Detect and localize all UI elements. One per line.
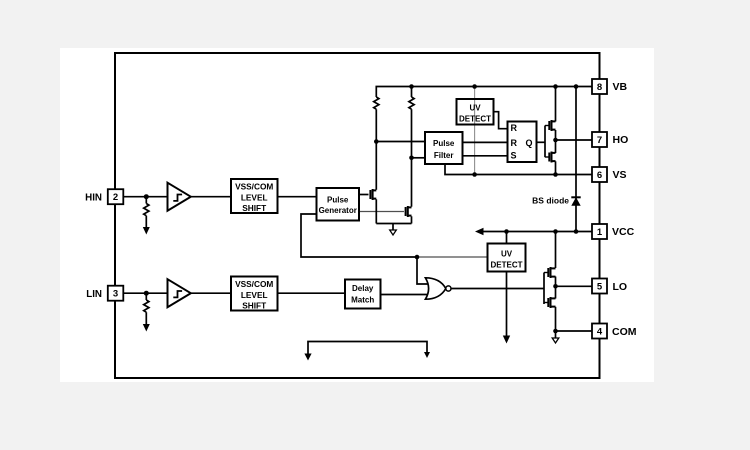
svg-text:8: 8 (597, 82, 602, 93)
svg-text:7: 7 (597, 135, 602, 146)
svg-text:BS diode: BS diode (532, 196, 569, 206)
svg-text:LEVEL: LEVEL (241, 290, 268, 300)
svg-text:UV: UV (501, 250, 513, 259)
svg-text:VSS/COM: VSS/COM (235, 182, 273, 192)
svg-text:Pulse: Pulse (327, 196, 349, 205)
svg-text:LEVEL: LEVEL (241, 193, 268, 203)
svg-text:R: R (511, 123, 518, 133)
svg-text:Delay: Delay (352, 284, 374, 293)
svg-text:VB: VB (613, 81, 628, 93)
svg-text:UV: UV (469, 104, 481, 113)
svg-text:1: 1 (597, 227, 603, 238)
svg-text:HIN: HIN (85, 192, 102, 203)
svg-text:Generator: Generator (319, 206, 357, 215)
svg-text:LO: LO (613, 281, 628, 293)
svg-text:Pulse: Pulse (433, 139, 455, 148)
svg-text:Filter: Filter (434, 151, 454, 160)
svg-text:COM: COM (612, 326, 637, 338)
svg-text:R: R (511, 138, 518, 148)
svg-text:6: 6 (597, 170, 602, 181)
svg-text:VSS/COM: VSS/COM (235, 279, 273, 289)
svg-text:SHIFT: SHIFT (242, 203, 266, 213)
svg-text:2: 2 (113, 192, 118, 203)
svg-text:VS: VS (613, 169, 627, 181)
svg-text:5: 5 (597, 282, 603, 293)
svg-text:SHIFT: SHIFT (242, 301, 266, 311)
svg-text:DETECT: DETECT (491, 260, 523, 269)
svg-text:DETECT: DETECT (459, 114, 491, 123)
svg-text:4: 4 (597, 327, 603, 338)
svg-text:Q: Q (526, 138, 533, 148)
svg-text:Match: Match (351, 296, 374, 305)
svg-text:LIN: LIN (86, 289, 102, 300)
svg-text:S: S (511, 151, 517, 161)
svg-text:VCC: VCC (612, 226, 635, 238)
svg-text:HO: HO (613, 134, 629, 146)
svg-text:3: 3 (113, 289, 118, 300)
